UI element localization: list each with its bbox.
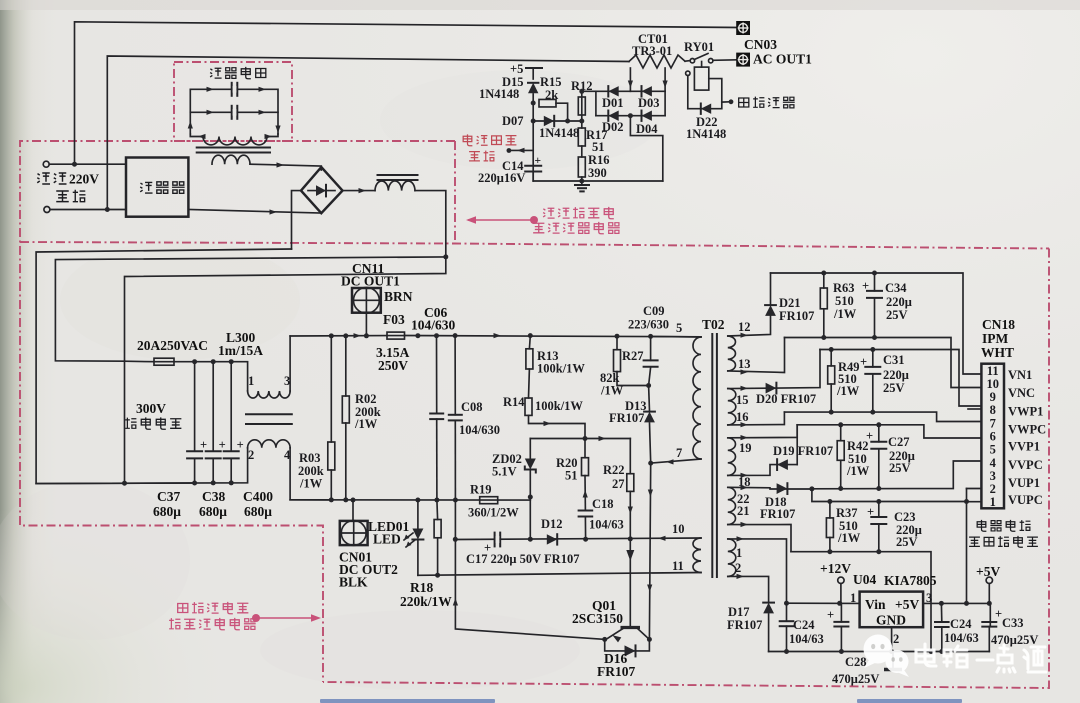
pink label zhengliu lvbo dianlu line2 bbox=[533, 222, 620, 234]
junction drive node R20 bbox=[583, 436, 588, 441]
junction supply4 drop bbox=[929, 649, 934, 654]
junction emitter node bbox=[602, 637, 607, 642]
wire pin16 bbox=[728, 412, 785, 425]
wire: contact to CN03 AC OUT1 bbox=[713, 59, 736, 62]
pink arrow: switching/secondary label bbox=[252, 614, 321, 622]
svg-text:11: 11 bbox=[672, 559, 684, 573]
svg-text:100k/1W: 100k/1W bbox=[537, 362, 585, 376]
junction R02 bottom bbox=[343, 497, 348, 502]
capacitor C38 bbox=[212, 362, 214, 452]
junction CN11 drop bbox=[364, 333, 369, 338]
arrow on rail middle bbox=[494, 333, 502, 338]
pink label jiaoliu shuru ji line1 bbox=[543, 207, 614, 219]
svg-text:223/630: 223/630 bbox=[628, 318, 669, 332]
arrow down on loop right leg bbox=[275, 126, 280, 134]
svg-text:C31: C31 bbox=[883, 353, 905, 367]
diode D17 vertical bbox=[763, 603, 774, 614]
junction R02 top bbox=[343, 333, 348, 338]
wire: upper AC input to filter box bbox=[49, 163, 126, 165]
T02 secondary winding 22-21 bbox=[728, 487, 736, 524]
svg-text:VUP1: VUP1 bbox=[1008, 476, 1040, 490]
junction LED col top bbox=[415, 333, 420, 338]
svg-text:F03: F03 bbox=[383, 312, 405, 327]
junction C24a bottom bbox=[784, 649, 789, 654]
svg-text:C24: C24 bbox=[793, 618, 815, 632]
capacitor C34 bbox=[874, 273, 876, 291]
svg-text:1N4148: 1N4148 bbox=[479, 87, 519, 101]
junction C37 top bbox=[192, 359, 197, 364]
relay contact circle right bbox=[709, 59, 713, 63]
diode D12 on pin10 rail bbox=[547, 534, 557, 544]
supply3 bottom rail (continues D18 wire) bbox=[812, 461, 982, 489]
power flag +5 bar bbox=[526, 68, 542, 79]
wire: C08 column to pin10 rail and Q01 base wire bbox=[455, 500, 604, 639]
junction R13 top bbox=[528, 333, 533, 338]
wire pin21 to supply4 bottom rail bbox=[728, 525, 791, 552]
svg-text:680μ: 680μ bbox=[244, 504, 272, 519]
svg-text:C400: C400 bbox=[243, 489, 273, 504]
wire pin12 with arrow bbox=[728, 316, 771, 336]
wire: D15 to node R15/D07 column bbox=[532, 94, 534, 181]
junction R18 bottom on pin11 wire bbox=[435, 573, 440, 578]
svg-text:7: 7 bbox=[990, 416, 996, 430]
junction C28 bottom bbox=[839, 649, 844, 654]
wire: tap to inverter terminal bbox=[722, 101, 729, 103]
wire pin19 bbox=[728, 425, 797, 438]
svg-text:680μ: 680μ bbox=[199, 504, 227, 519]
svg-text:19: 19 bbox=[739, 441, 752, 455]
capacitor C24a bbox=[786, 603, 788, 621]
resistor R20 vertical bbox=[584, 439, 586, 458]
supply3 top rail bbox=[797, 425, 981, 438]
wire U04 pin3 +5V output bbox=[923, 603, 990, 626]
svg-text:D01: D01 bbox=[602, 96, 624, 110]
pink label kaiguan zhendang ji line1 bbox=[178, 602, 249, 614]
svg-text:51: 51 bbox=[565, 469, 578, 483]
T02 secondary winding 19-18 bbox=[728, 438, 736, 476]
arrow on bridge output bbox=[359, 188, 367, 193]
svg-text:104/630: 104/630 bbox=[411, 318, 456, 333]
svg-text:250V: 250V bbox=[378, 358, 408, 373]
wire CN18 pin2/pin1 vertical to +5V bbox=[966, 489, 968, 604]
capacitor C24b bbox=[940, 603, 942, 622]
filter box (lv bo qi) bbox=[126, 158, 188, 217]
junction R37 top bbox=[827, 499, 832, 504]
wire: CT01 to relay contact bbox=[685, 60, 689, 63]
resistor R17 vertical bbox=[578, 128, 585, 146]
current sense tap wire with arrow bbox=[511, 149, 533, 151]
svg-text:+12V: +12V bbox=[820, 561, 851, 576]
supply4 top rail bbox=[812, 489, 967, 502]
svg-text:C09: C09 bbox=[643, 304, 665, 318]
svg-text:/1W: /1W bbox=[833, 307, 857, 321]
bottom rail C37/C38/C400 bbox=[36, 448, 248, 484]
svg-text:8: 8 bbox=[990, 403, 996, 417]
ground rail of 5V/12V section bbox=[769, 651, 990, 653]
capacitor X1 upper (plates) bbox=[232, 83, 238, 96]
junction C400 top bbox=[229, 359, 234, 364]
connector CN18 box bbox=[981, 364, 1004, 509]
junction on upper AC wire bbox=[72, 162, 77, 167]
arrow on drive wire right bbox=[599, 436, 607, 441]
wire: lower AC input to filter box bbox=[50, 209, 126, 211]
svg-text:16: 16 bbox=[736, 410, 749, 424]
resistor R63 bbox=[823, 273, 825, 288]
capacitor C37 bbox=[194, 362, 196, 452]
svg-text:D12: D12 bbox=[541, 517, 563, 531]
LED01 diode symbol bbox=[417, 500, 419, 529]
svg-text:390: 390 bbox=[588, 166, 607, 180]
T02 feedback winding pins 10-11 bbox=[693, 538, 701, 573]
resistor R16 vertical bbox=[578, 157, 585, 177]
junction C08 col on pin10 rail bbox=[453, 537, 458, 542]
svg-text:100k/1W: 100k/1W bbox=[535, 399, 583, 413]
resistor R13 vertical bbox=[528, 336, 531, 349]
diode D03 bbox=[642, 86, 652, 96]
junction C27 top bbox=[876, 422, 881, 427]
resistor R15 horizontal bbox=[539, 99, 556, 107]
junction R49 bottom bbox=[829, 410, 834, 415]
wire: bridge plus output to choke L2 bbox=[343, 190, 376, 192]
region outline: AC input and rectifier area (dash-dot) bbox=[20, 141, 455, 682]
resistor R12 vertical bbox=[578, 97, 585, 115]
transistor Q01 base bar bbox=[621, 626, 641, 629]
junction C24b top bbox=[939, 601, 944, 606]
current transformer CT01 primary zigzag bbox=[629, 55, 685, 68]
paper top shade bbox=[0, 0, 1080, 10]
svg-text:D03: D03 bbox=[638, 96, 660, 110]
wire ZD02 col to pin10 rail bbox=[529, 497, 531, 539]
junction at D07 line bbox=[531, 119, 536, 124]
diode D04 bbox=[642, 111, 652, 121]
junction C31 top bbox=[870, 347, 875, 352]
wire A: bridge minus to C37 rail (long) bbox=[36, 249, 291, 484]
svg-text:T02: T02 bbox=[702, 317, 725, 332]
wire: R17 to R16 bbox=[581, 146, 583, 157]
svg-text:C17 220μ 50V FR107: C17 220μ 50V FR107 bbox=[466, 552, 579, 566]
svg-text:2k: 2k bbox=[545, 88, 558, 102]
fuse F03 bbox=[387, 332, 405, 339]
relay coil stub to contact wire bbox=[701, 62, 703, 68]
choke core lines bbox=[197, 148, 270, 153]
svg-text:DC OUT1: DC OUT1 bbox=[341, 274, 400, 289]
svg-text:CN18: CN18 bbox=[982, 317, 1015, 332]
+12V terminal circle bbox=[840, 584, 842, 604]
terminal dot of sense signal bbox=[507, 148, 512, 153]
arrow on lower cap wire left bbox=[207, 110, 215, 115]
junction +5V terminal bbox=[987, 601, 992, 606]
terminal: AC input upper bbox=[43, 161, 49, 167]
arrow down on CT01 left leg bbox=[628, 81, 633, 89]
label: shuru input line2 bbox=[56, 190, 85, 202]
junction R63 bottom bbox=[821, 335, 826, 340]
regulator U04 box bbox=[860, 592, 924, 628]
svg-text:104/63: 104/63 bbox=[944, 631, 979, 645]
stub to pin9 bbox=[968, 408, 981, 410]
capacitor C28 (column) bbox=[840, 603, 842, 622]
svg-text:VVP1: VVP1 bbox=[1008, 440, 1040, 454]
svg-text:R03: R03 bbox=[299, 451, 321, 465]
junction C06 col on R19 rail bbox=[434, 498, 439, 503]
wire D19 out up to supply3 rail bbox=[796, 425, 798, 465]
svg-text:27: 27 bbox=[612, 477, 625, 491]
capacitor C33 bbox=[982, 622, 996, 627]
arrow on collector column upper bbox=[648, 490, 653, 498]
junction R27 top bbox=[615, 334, 620, 339]
arrow up on loop left leg bbox=[188, 121, 193, 129]
wire: AC lower line to bridge bottom corner bbox=[188, 210, 321, 214]
wire: relay right leg to tap node bbox=[709, 79, 722, 103]
supply4 bottom rail bbox=[791, 552, 931, 652]
wire from choke to loop right bbox=[267, 134, 278, 137]
300V DC rail (top) bbox=[290, 335, 387, 337]
zener ZD02 bbox=[529, 439, 531, 460]
diode D16 bbox=[625, 645, 636, 656]
label diya gongdian duan line2 bbox=[969, 536, 1038, 547]
stub to pin2 bbox=[967, 488, 982, 490]
junction C400 bottom bbox=[229, 480, 234, 485]
junction bridge tap bbox=[628, 113, 633, 118]
capacitor C31 bbox=[872, 350, 874, 367]
region box: filter-capacitor sub-circuit (dash-dot) bbox=[174, 62, 292, 141]
capacitor C14 plates bbox=[525, 166, 541, 172]
svg-text:GND: GND bbox=[876, 613, 906, 628]
junction R37 bottom bbox=[827, 549, 832, 554]
svg-text:1: 1 bbox=[736, 546, 742, 560]
svg-text:470μ25V: 470μ25V bbox=[832, 672, 879, 686]
arrow up on C08 column bbox=[453, 598, 458, 606]
resistor R02 vertical bbox=[345, 336, 347, 396]
svg-text:+: + bbox=[535, 155, 542, 167]
svg-text:LED: LED bbox=[373, 532, 401, 547]
junction supply4 rail on vertical bbox=[964, 499, 969, 504]
wire pin5 into winding bbox=[651, 335, 701, 338]
bridge right vertical to CT01 bbox=[664, 68, 666, 116]
svg-text:5: 5 bbox=[990, 443, 996, 457]
svg-text:C33: C33 bbox=[1002, 616, 1024, 630]
svg-text:C24: C24 bbox=[950, 617, 972, 631]
wire: R12 column rail1 to R17 bbox=[581, 91, 583, 128]
wire: AC upper line choke to bridge bbox=[250, 164, 321, 170]
bridge left vertical bbox=[595, 91, 597, 115]
junction D18 wire / supply4 drop bbox=[809, 486, 814, 491]
svg-text:470μ25V: 470μ25V bbox=[991, 633, 1038, 647]
arrow on AC lower wire bbox=[270, 209, 278, 214]
junction C23 bottom bbox=[876, 549, 881, 554]
drive node wire y438 bbox=[530, 438, 630, 440]
arrow on rail near CN11 bbox=[354, 333, 362, 338]
junction CN01 stub top bbox=[351, 498, 356, 503]
svg-text:6: 6 bbox=[990, 429, 996, 443]
svg-text:104/63: 104/63 bbox=[589, 518, 624, 532]
bridge rail1 D01/D03 bbox=[582, 90, 665, 92]
junction C09-R27 node bbox=[646, 383, 651, 388]
svg-text:VWP1: VWP1 bbox=[1008, 404, 1043, 418]
stub to pin1 bbox=[967, 501, 982, 503]
+5V terminal circle bbox=[988, 584, 990, 604]
svg-text:FR107: FR107 bbox=[779, 309, 814, 323]
region outline: lower dash-dot boundary y=243 bbox=[20, 242, 1049, 249]
svg-text:220V: 220V bbox=[69, 172, 99, 187]
wire R13 to R14 bbox=[528, 369, 531, 398]
junction C38 top bbox=[211, 359, 216, 364]
wire CN11 stub bbox=[365, 313, 367, 336]
capacitor C27 bbox=[878, 425, 880, 442]
svg-text:VN1: VN1 bbox=[1008, 368, 1032, 382]
connector CN11 square bbox=[352, 287, 381, 313]
svg-text:AC OUT1: AC OUT1 bbox=[753, 52, 812, 67]
svg-text:7: 7 bbox=[676, 446, 682, 460]
svg-text:2: 2 bbox=[990, 482, 996, 496]
svg-text:+5V: +5V bbox=[895, 597, 919, 612]
svg-text:R18: R18 bbox=[410, 580, 433, 595]
svg-text:+5: +5 bbox=[510, 62, 523, 76]
svg-text:D20 FR107: D20 FR107 bbox=[756, 392, 816, 406]
svg-text:R63: R63 bbox=[833, 281, 855, 295]
junction R42 top bbox=[838, 422, 843, 427]
svg-text:4: 4 bbox=[990, 456, 997, 470]
svg-text:220μ16V: 220μ16V bbox=[478, 171, 525, 185]
svg-text:WHT: WHT bbox=[981, 345, 1014, 360]
svg-text:BLK: BLK bbox=[339, 575, 368, 590]
svg-text:D07: D07 bbox=[502, 114, 524, 128]
svg-text:R15: R15 bbox=[540, 75, 562, 89]
resistor R18 vertical bbox=[436, 500, 439, 520]
svg-text:C27: C27 bbox=[888, 435, 910, 449]
svg-text:2: 2 bbox=[735, 561, 741, 575]
label dianliu jiance (current sense) line1 pink-red bbox=[463, 134, 516, 145]
wire C18 to pin10 rail bbox=[584, 517, 586, 539]
label: jiaoliu 220V input line1 bbox=[37, 173, 66, 184]
svg-text:RY01: RY01 bbox=[684, 40, 714, 54]
arrow on pin10 rail near T02 bbox=[658, 536, 666, 541]
resistor R42 bbox=[840, 425, 842, 441]
arrow on AC wire to bridge bbox=[277, 162, 285, 167]
resistor R49 bbox=[830, 350, 832, 366]
svg-text:51: 51 bbox=[592, 140, 605, 154]
svg-text:10: 10 bbox=[672, 522, 685, 536]
arrow on base column upper bbox=[628, 507, 633, 515]
svg-text:C34: C34 bbox=[885, 281, 907, 295]
D16 loop wires bbox=[605, 639, 650, 651]
arrow on collector column lower bbox=[647, 585, 652, 593]
svg-text:C28: C28 bbox=[845, 655, 867, 669]
junction collector node bbox=[647, 637, 652, 642]
LED light arrows bbox=[404, 533, 415, 547]
label gongdian dianya (supply voltage) bbox=[125, 417, 181, 429]
junction ZD02 col on pin10 rail bbox=[528, 537, 533, 542]
wire pin13 with arrow bbox=[728, 338, 785, 373]
pink label ciji shuchu dianlu line2 bbox=[169, 618, 256, 630]
svg-text:/1W: /1W bbox=[846, 464, 870, 478]
junction base column on pin10 rail bbox=[628, 536, 633, 541]
svg-text:D02: D02 bbox=[602, 120, 624, 134]
junction R03 top bbox=[329, 333, 334, 338]
diode D19 bbox=[777, 459, 788, 470]
svg-text:C38: C38 bbox=[202, 489, 225, 504]
wire CN01 stub to R19 rail bbox=[352, 500, 354, 521]
svg-text:Vin: Vin bbox=[865, 597, 886, 612]
terminal dot jie fan xiang qi bbox=[729, 99, 734, 104]
junction pin1/C24a on bus bbox=[784, 601, 789, 606]
svg-text:9: 9 bbox=[990, 390, 996, 404]
label xinhao line2 pink-red bbox=[469, 151, 495, 161]
arrow on R14 out wire bbox=[544, 421, 552, 426]
svg-text:+: + bbox=[200, 438, 207, 452]
wire: R15 right to D07 output node bbox=[556, 103, 568, 121]
svg-text:D21: D21 bbox=[779, 296, 801, 310]
svg-text:510: 510 bbox=[835, 294, 854, 308]
svg-text:1: 1 bbox=[990, 495, 996, 509]
svg-text:11: 11 bbox=[987, 364, 999, 378]
svg-text:13: 13 bbox=[738, 357, 751, 371]
paper bottom-left green tint bbox=[0, 380, 420, 703]
svg-text:/1W: /1W bbox=[600, 384, 624, 398]
svg-text:/1W: /1W bbox=[299, 477, 323, 491]
svg-text:5: 5 bbox=[676, 321, 682, 335]
pink arrow: AC input & rectifier label bbox=[466, 216, 538, 224]
wire+arrow from loop left to choke bbox=[190, 134, 203, 137]
transformer L300 upper winding bbox=[248, 391, 291, 398]
wire: AC line N to CT01 (second long wire) bbox=[107, 56, 629, 209]
ground rail of sense circuit bbox=[533, 180, 663, 182]
diode D13 vertical bbox=[648, 386, 651, 412]
svg-text:FR107: FR107 bbox=[597, 664, 635, 679]
+12V bus wire bbox=[787, 602, 860, 604]
L300 core lines bbox=[246, 414, 292, 424]
bridge mid-bottom tap to ground rail bbox=[630, 116, 662, 181]
svg-text:1: 1 bbox=[850, 591, 856, 605]
T02 core lines bbox=[712, 334, 717, 577]
svg-text:220μ: 220μ bbox=[883, 368, 909, 382]
transformer L300 lower winding bbox=[248, 440, 291, 448]
label bianpin dianlu (inverter circuit) line1 bbox=[977, 520, 1030, 531]
svg-text:25V: 25V bbox=[886, 308, 908, 322]
bridge rectifier BD diamond bbox=[301, 167, 343, 213]
wire B: 300V+ feed to fuse (long) bbox=[55, 257, 445, 361]
svg-text:20A250VAC: 20A250VAC bbox=[137, 338, 208, 353]
junction C18 on pin10 rail bbox=[583, 537, 588, 542]
junction C31 bottom bbox=[870, 410, 875, 415]
relay coil terminal circle bbox=[686, 71, 690, 75]
capacitor C18 plates bbox=[579, 511, 593, 517]
transistor Q01 emitter with arrow bbox=[606, 629, 623, 640]
capacitor C400 bbox=[230, 362, 232, 452]
arrow down on CT01 right leg bbox=[663, 81, 668, 89]
svg-text:220k/1W: 220k/1W bbox=[400, 594, 452, 609]
T02 secondary winding 15-16 bbox=[728, 389, 736, 425]
svg-text:25V: 25V bbox=[896, 535, 918, 549]
connector CN01 square (LED01) bbox=[340, 521, 368, 546]
svg-text:1N4148: 1N4148 bbox=[686, 127, 726, 141]
svg-text:R16: R16 bbox=[588, 153, 610, 167]
choke L2 winding bbox=[375, 181, 415, 191]
junction on +5V wire bbox=[964, 601, 969, 606]
arrow on base column lower (big) bbox=[626, 550, 634, 561]
svg-text:/1W: /1W bbox=[836, 384, 860, 398]
bottom cropped blue caption fragments bbox=[320, 699, 962, 703]
svg-text:+: + bbox=[827, 608, 834, 622]
junction: wire C on C37 rail bbox=[122, 481, 127, 486]
wire: L300 pin4 down to R19 rail bbox=[290, 448, 330, 500]
fuse 20A250VAC bbox=[154, 358, 174, 365]
supply2 top rail bbox=[820, 350, 981, 407]
wire: R16 to ground rail bbox=[581, 177, 583, 181]
label jiefanxiangqi (to inverter) bbox=[739, 97, 795, 108]
svg-text:D19 FR107: D19 FR107 bbox=[773, 444, 833, 458]
svg-text:R02: R02 bbox=[355, 392, 377, 406]
wire: AC line L to CN03 (top long wire) bbox=[75, 22, 739, 164]
